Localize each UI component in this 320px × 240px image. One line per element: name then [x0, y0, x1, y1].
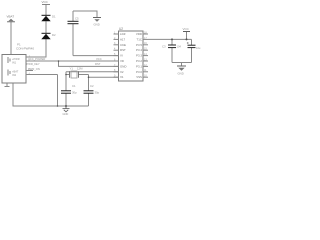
svg-text:PWR_KEY: PWR_KEY [27, 62, 40, 66]
svg-text:VDD: VDD [136, 32, 142, 36]
svg-text:P3.0: P3.0 [136, 70, 142, 74]
svg-text:U2: U2 [119, 27, 123, 31]
svg-text:GND: GND [63, 112, 69, 116]
svg-text:VCC: VCC [96, 57, 102, 61]
svg-text:VSS: VSS [136, 75, 142, 79]
svg-text:VCC: VCC [42, 0, 49, 4]
svg-text:P3.4: P3.4 [136, 48, 142, 52]
svg-text:C2: C2 [90, 84, 94, 88]
svg-text:GND: GND [120, 64, 126, 68]
svg-text:VCC: VCC [183, 27, 190, 31]
svg-text:30p: 30p [72, 91, 77, 95]
svg-text:VI: VI [120, 54, 123, 58]
svg-text:IN2: IN2 [12, 73, 17, 77]
svg-text:RST: RST [95, 62, 101, 66]
svg-text:GND: GND [178, 72, 184, 76]
svg-text:X2: X2 [120, 70, 124, 74]
svg-text:VBAT: VBAT [7, 14, 15, 18]
svg-text:12M: 12M [77, 67, 83, 71]
svg-text:P3.2: P3.2 [136, 59, 142, 63]
svg-text:IN1: IN1 [12, 61, 17, 65]
svg-text:10u: 10u [196, 46, 201, 50]
svg-text:D1: D1 [52, 15, 56, 19]
svg-text:C1: C1 [72, 84, 76, 88]
svg-text:CKE: CKE [120, 43, 126, 47]
svg-text:+BAT: +BAT [12, 70, 19, 74]
svg-text:D2: D2 [52, 33, 56, 37]
svg-text:GND: GND [94, 23, 100, 27]
svg-text:P3.3: P3.3 [136, 54, 142, 58]
svg-text:104: 104 [177, 45, 182, 49]
svg-text:PWR_ON: PWR_ON [28, 67, 40, 71]
svg-text:P3.5: P3.5 [136, 43, 142, 47]
svg-text:VCC_POWER: VCC_POWER [28, 57, 45, 61]
svg-text:C5: C5 [75, 17, 79, 21]
svg-text:+PWR: +PWR [12, 57, 20, 61]
svg-text:VD: VD [120, 59, 124, 63]
svg-text:A17: A17 [120, 37, 126, 41]
svg-text:RST: RST [120, 48, 126, 52]
svg-text:P3.1: P3.1 [136, 64, 142, 68]
svg-text:CON-PWR40: CON-PWR40 [16, 47, 34, 51]
svg-text:Y1: Y1 [70, 67, 74, 71]
svg-text:X1: X1 [120, 75, 124, 79]
svg-text:LDZ: LDZ [120, 32, 126, 36]
svg-text:T1C: T1C [137, 37, 142, 41]
svg-text:C3: C3 [162, 45, 166, 49]
svg-text:30p: 30p [95, 91, 100, 95]
